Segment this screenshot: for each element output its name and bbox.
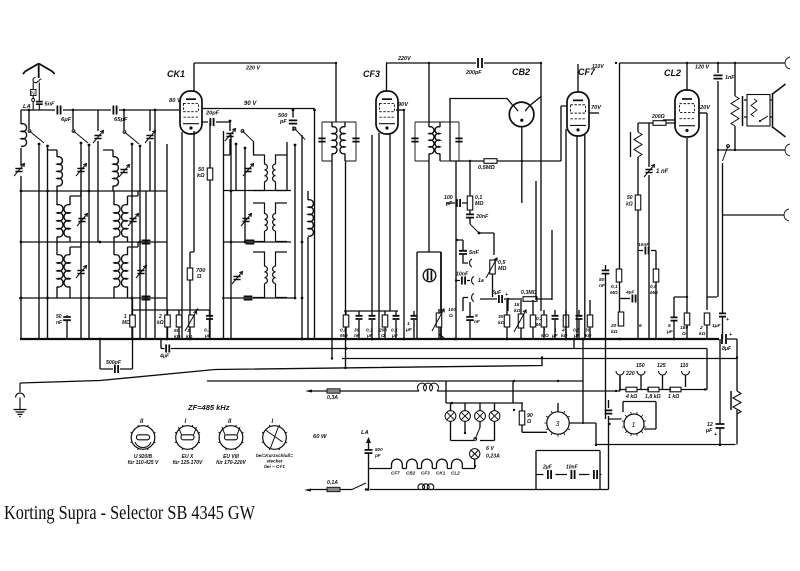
resistor 700 Ohm — [187, 268, 193, 280]
wire speaker return rail — [718, 149, 785, 151]
trimmer bus b — [146, 136, 153, 139]
svg-text:10nF: 10nF — [638, 242, 650, 248]
svg-text:4: 4 — [561, 328, 565, 334]
junction mid 20 — [331, 357, 333, 359]
inductor osc choke — [308, 200, 313, 237]
wire LA drop — [368, 443, 370, 490]
capacitor trans1 left — [605, 410, 613, 413]
svg-text:0,3MΩ: 0,3MΩ — [521, 290, 537, 296]
dot 3k arrow end — [196, 308, 198, 310]
wire 90ohm top stub — [521, 403, 523, 411]
svg-text:MΩ: MΩ — [650, 290, 658, 296]
svg-text:kΩ: kΩ — [514, 308, 521, 314]
svg-text:4μF: 4μF — [159, 354, 170, 360]
capacitor 20nF — [466, 214, 474, 217]
speaker switch blade — [760, 116, 768, 121]
junction bus 0 — [99, 338, 102, 341]
capacitor 10nF AF — [462, 277, 465, 285]
resistor 15 kOhm var — [518, 314, 524, 328]
resistor 30 kOhm — [504, 315, 510, 327]
wire 50nF stub — [66, 315, 68, 339]
wire tuner vertical x81 — [80, 143, 82, 339]
resistor 0.1 MOhm r — [616, 269, 622, 282]
svg-text:CF3: CF3 — [421, 471, 430, 476]
svg-text:ZF=485 kHz: ZF=485 kHz — [187, 403, 230, 412]
svg-text:kΩ: kΩ — [197, 173, 205, 179]
svg-text:220: 220 — [625, 371, 635, 377]
wire tuner vertical x155 — [154, 110, 156, 339]
dot throw s3b — [139, 145, 142, 148]
wire transformer bottom — [734, 126, 736, 150]
svg-text:II: II — [228, 419, 232, 425]
wire A1 stems — [48, 150, 58, 191]
wire fuse line — [311, 390, 419, 392]
wire switch2 stem — [72, 110, 74, 129]
wire tuner vertical x146 — [145, 191, 147, 339]
wire tuner vertical x318 — [314, 109, 316, 340]
trimmer r2a — [78, 219, 85, 222]
junction tuner 24 — [313, 109, 316, 112]
junction mid 17 — [469, 160, 471, 162]
svg-text:200: 200 — [378, 328, 387, 334]
trimmer CK1 grid arrow — [225, 129, 236, 142]
speaker voice coil zigzag — [751, 99, 757, 117]
junction tuner 2 — [123, 109, 126, 112]
resistor 0.5 MOhm g1 — [343, 315, 349, 327]
lamp dial 2 — [460, 411, 471, 422]
svg-text:120 V: 120 V — [695, 65, 709, 71]
selector tap 110 — [682, 371, 690, 375]
capacitor 65pF bus series — [113, 106, 116, 115]
selector tap 125 — [659, 371, 667, 375]
wire CB2 top right — [531, 97, 542, 106]
wire contact c — [463, 298, 468, 312]
svg-text:pF: pF — [445, 201, 453, 207]
wire output drop 2 — [734, 63, 736, 96]
svg-text:CF7: CF7 — [391, 471, 400, 476]
wire tuner tie row3 left — [19, 297, 167, 299]
wire CK1 pin to 700 — [190, 252, 194, 339]
junction bus 1 — [166, 338, 169, 341]
capacitor 5nF bus — [466, 317, 474, 320]
resistor 2 kOhm det — [165, 315, 171, 327]
junction bus 3 — [301, 338, 304, 341]
wire CF3 anode right — [396, 109, 404, 111]
svg-text:6: 6 — [639, 323, 642, 329]
junction mid 19 — [686, 296, 688, 298]
capacitor 500pF agc — [115, 365, 118, 373]
svg-text:pF: pF — [374, 453, 381, 458]
junction tuner 22 — [229, 120, 232, 123]
wire 200 to x638 — [638, 123, 676, 132]
svg-text:60 W: 60 W — [313, 434, 327, 440]
wire fuse line b — [437, 376, 620, 391]
junction power 1 — [474, 465, 476, 467]
resistor 30 kOhm b — [587, 315, 593, 327]
dot throw s4b — [244, 147, 247, 150]
heater chain windings — [369, 459, 463, 468]
inductor A2a — [57, 205, 63, 237]
IF transformer 1 frame — [322, 122, 356, 161]
junction mid 12 — [734, 149, 736, 151]
transformer 3 (autotransformer) — [544, 409, 572, 437]
wire lamp bottoms — [451, 421, 495, 440]
wire bus B2 — [172, 348, 707, 350]
junction tuner 18 — [244, 241, 247, 244]
junction mid 7 — [540, 62, 542, 64]
wire main ground bus — [20, 338, 719, 340]
svg-text:30: 30 — [498, 314, 504, 320]
svg-text:2μF: 2μF — [542, 465, 553, 471]
inductor B1 — [113, 157, 118, 186]
resistor 200 Ohm g1 — [382, 315, 388, 327]
resistor 0.5 MOhm r — [653, 269, 659, 282]
wire 4uF bracket — [161, 339, 172, 349]
junction bus 6 — [403, 338, 406, 341]
capacitor pad left r3 — [142, 296, 151, 299]
capacitor 0.1uF det — [206, 316, 213, 319]
svg-text:kΩ: kΩ — [498, 320, 505, 326]
wire 2k stub — [707, 297, 717, 339]
wire group1 stubs — [346, 320, 396, 339]
svg-text:8μF: 8μF — [722, 346, 732, 352]
wire x574 link — [573, 339, 575, 349]
wire tuner vertical x132 — [131, 144, 133, 339]
indicator lamp frame bar — [440, 252, 442, 339]
inductor A3a — [57, 255, 63, 287]
svg-text:0,1: 0,1 — [611, 284, 618, 290]
capacitor 5uF — [671, 317, 678, 320]
wire tuner vertical x89 — [88, 145, 90, 339]
dot lamp2 stub — [464, 432, 466, 434]
junction tuner 3 — [154, 109, 157, 112]
wire 50k stem — [209, 121, 211, 339]
indicator eye — [423, 269, 436, 282]
svg-text:1: 1 — [407, 321, 410, 327]
junction bus 9 — [565, 338, 568, 341]
svg-text:0,5: 0,5 — [650, 284, 657, 290]
svg-text:20nF: 20nF — [475, 214, 489, 220]
dot throw s4a — [235, 143, 238, 146]
svg-text:μF: μF — [405, 327, 413, 333]
wire tuner tie row2 left — [21, 241, 167, 243]
wire 1M det stubs — [132, 298, 134, 339]
wire 10nF line — [456, 280, 470, 282]
svg-text:6μF: 6μF — [61, 117, 72, 123]
switch band 1 — [28, 130, 44, 143]
lightning arrester gap — [33, 78, 42, 83]
svg-text:0,5MΩ: 0,5MΩ — [478, 165, 495, 171]
svg-text:125: 125 — [657, 363, 666, 369]
svg-text:II: II — [140, 419, 144, 425]
trimmer antenna arrow — [14, 164, 25, 177]
resistor 0.3 MOhm — [523, 297, 537, 302]
fuse 0.1A body — [327, 487, 340, 491]
junction power 13 — [451, 402, 453, 404]
junction bus 5 — [371, 338, 374, 341]
wire bus B3 — [342, 358, 737, 360]
svg-text:200pF: 200pF — [465, 70, 482, 76]
junction mid 11 — [717, 149, 719, 151]
wire B1 stems — [103, 150, 113, 191]
wire trimmer down — [224, 139, 230, 155]
capacitor 0.1uF g1b — [393, 316, 400, 319]
trimmer r1a arrow — [76, 164, 87, 177]
contact arc a — [470, 259, 472, 267]
wire rail drop to CK1 anode — [193, 63, 195, 91]
contact arc b — [472, 277, 474, 285]
svg-text:nF: nF — [56, 320, 63, 326]
junction mid 16 — [521, 160, 523, 162]
wire antenna right branch — [38, 83, 40, 111]
capacitor IFT1 right — [352, 138, 359, 141]
svg-text:65pF: 65pF — [114, 117, 128, 123]
svg-text:1a: 1a — [478, 278, 484, 284]
wire pot frame — [417, 252, 441, 339]
dot throw s3a — [131, 143, 134, 146]
capacitor 500pF osc — [289, 120, 297, 123]
resistor 100 Ohm var — [436, 313, 442, 327]
svg-text:3: 3 — [556, 421, 560, 428]
svg-text:pF: pF — [279, 119, 287, 125]
junction mid 0 — [455, 279, 457, 281]
switch band 4 — [241, 130, 254, 142]
junction bus 11 — [673, 338, 676, 341]
trimmer r3a — [77, 271, 84, 274]
svg-text:110: 110 — [680, 363, 688, 369]
svg-text:kΩ: kΩ — [611, 329, 618, 335]
resistor 0.1 MOhm grid — [467, 196, 473, 210]
antenna — [23, 64, 55, 79]
connector hook right top — [785, 57, 790, 69]
svg-text:4μF: 4μF — [625, 290, 636, 296]
wire trans3 top — [557, 403, 559, 412]
svg-text:50: 50 — [627, 195, 633, 201]
wire tuner vertical x47 — [47, 146, 49, 339]
inductor IFT1 secondary — [340, 127, 345, 154]
tube socket 2 — [175, 425, 200, 450]
inductor B3b — [122, 255, 128, 287]
tube CF3 — [376, 91, 398, 134]
arrow 15k — [514, 310, 526, 332]
wire tuner vertical x140 — [139, 146, 141, 339]
wire x456 dot branch — [456, 240, 463, 250]
capacitor 30nF g1 — [356, 316, 363, 319]
trimmer 1nF arrow — [644, 165, 655, 178]
resistor 4 kOhm sel — [626, 387, 637, 392]
wire heater feed x583 — [582, 339, 584, 424]
connector hook right lower — [784, 209, 789, 221]
trimmer bus b arrow — [145, 131, 156, 144]
svg-text:0,1A: 0,1A — [327, 480, 338, 486]
svg-text:CB2: CB2 — [512, 67, 530, 77]
tube socket 3 — [218, 425, 243, 450]
junction power 0 — [365, 488, 367, 490]
trimmer r1c arrow — [243, 164, 254, 177]
svg-text:kΩ: kΩ — [626, 202, 633, 208]
resistor 1.8 kOhm sel — [648, 387, 659, 392]
svg-text:500: 500 — [375, 447, 383, 452]
svg-text:für 125-170V: für 125-170V — [173, 460, 203, 466]
svg-text:3: 3 — [187, 328, 190, 334]
dot throw s1a — [38, 143, 41, 146]
wire B2 stems — [114, 191, 138, 242]
trimmer r3c — [233, 277, 240, 280]
junction mid 1 — [456, 239, 458, 241]
svg-text:1nF: 1nF — [725, 75, 735, 81]
trimmer r2a arrow — [77, 214, 88, 227]
arrow tip fuse line — [305, 390, 312, 393]
wire selector chain — [620, 349, 707, 390]
svg-text:70V: 70V — [591, 105, 602, 111]
junction mid 3 — [507, 298, 509, 300]
svg-text:CL2: CL2 — [451, 471, 460, 476]
IF transformer 2 frame — [415, 122, 459, 161]
svg-text:50: 50 — [599, 277, 605, 283]
wire heater start — [365, 489, 367, 491]
connector hook right bottom — [785, 144, 790, 156]
wire 50k det stubs — [178, 310, 180, 339]
core bar CL2 — [630, 132, 632, 157]
junction mid 21 — [344, 367, 346, 369]
selector tap 150 — [637, 371, 645, 375]
junction bus 7 — [455, 338, 458, 341]
junction power 2 — [557, 380, 559, 382]
junction mid 18 — [313, 338, 315, 340]
svg-text:1,8 kΩ: 1,8 kΩ — [645, 394, 661, 400]
junction mid 15 — [454, 338, 456, 340]
capacitor 500pF LA — [365, 450, 373, 453]
junction tuner 8 — [99, 241, 102, 244]
svg-text:μF: μF — [666, 329, 674, 335]
wire tuner vertical x39 — [38, 144, 40, 339]
capacitor 20pF — [210, 118, 213, 126]
ground symbol — [14, 383, 27, 417]
tube socket 1 — [130, 425, 155, 450]
wire caps block rails — [536, 451, 602, 490]
svg-text:bei=Kurzschluß=: bei=Kurzschluß= — [256, 453, 293, 458]
resistor 0.2 MOhm — [530, 315, 536, 327]
junction power 14 — [513, 409, 515, 411]
svg-text:6μF: 6μF — [492, 290, 502, 296]
capacitor 2uF — [548, 470, 551, 479]
junction bus 12 — [582, 338, 585, 341]
resistor 1 kOhm sel — [670, 387, 681, 392]
dot throw s1b — [46, 145, 49, 148]
wire CF3 pins — [379, 63, 390, 339]
lamp dial 1 — [445, 411, 456, 422]
resistor 50 kOhm det — [176, 315, 182, 327]
inductor antenna coil — [21, 124, 27, 147]
svg-text:0,1: 0,1 — [391, 328, 398, 334]
inductor IFT2 secondary — [435, 127, 440, 154]
wire B3 stems — [114, 242, 138, 298]
junction power 10 — [719, 444, 721, 446]
resistor 20 kOhm — [618, 312, 624, 326]
junction tuner 11 — [20, 297, 23, 300]
wire 1uFp stub — [723, 163, 785, 339]
wire AF switch out — [479, 233, 494, 255]
wire 500pF branch — [100, 327, 133, 369]
wire IFT1 coil stems — [332, 122, 345, 161]
svg-text:15: 15 — [514, 302, 520, 308]
svg-text:5: 5 — [475, 313, 478, 319]
wire A3 stems — [57, 242, 81, 298]
trimmer r1b arrow — [119, 165, 130, 178]
wire 4uF line — [620, 298, 639, 300]
trimmer r1b — [120, 170, 127, 173]
switch lamps — [474, 428, 480, 441]
wire 10nF jog — [638, 251, 656, 340]
wire AVC line x404 — [403, 110, 405, 339]
wire trim bus a stem — [97, 110, 99, 242]
svg-text:Ω: Ω — [196, 274, 202, 280]
dot mains switch — [367, 488, 370, 491]
contact arc c — [472, 294, 474, 302]
junction power 9 — [736, 356, 738, 358]
transformer 1 (motor?) — [622, 412, 646, 436]
output transformer core — [742, 96, 744, 126]
wire trans1 left — [609, 416, 622, 419]
wire trim bus b stem — [149, 110, 151, 191]
wire tuner vertical x302 — [301, 135, 303, 339]
wire arrester left join — [32, 102, 34, 111]
capacitor 6uF bus series — [57, 106, 60, 115]
resistor 4 kOhm — [563, 315, 569, 327]
wire 5nF to contact — [463, 255, 468, 263]
resistor 1 MOhm af — [541, 315, 547, 327]
speaker cone — [773, 84, 786, 137]
svg-text:LA: LA — [361, 430, 369, 436]
trimmer antenna — [15, 169, 22, 172]
junction mid 23 — [615, 62, 617, 64]
capacitor 10nF r — [645, 247, 648, 255]
capacitor pad right r2 — [246, 240, 255, 243]
resistor 3 kOhm var — [189, 315, 195, 327]
lamp 6V scale — [470, 449, 480, 459]
wire trans3 right — [569, 423, 735, 445]
junction power 3 — [513, 380, 515, 382]
wire group1 tie — [344, 311, 398, 315]
capacitor 0.1uF g1 — [369, 316, 376, 319]
inductor B3a — [114, 255, 120, 287]
junction power 11 — [608, 423, 610, 425]
capacitor 50nF — [602, 270, 610, 273]
wire 150 stub — [686, 325, 688, 339]
wire tuner vertical x236 — [235, 144, 237, 191]
svg-text:kΩ: kΩ — [157, 320, 164, 326]
trimmer r2b arrow — [128, 214, 139, 227]
svg-text:90V: 90V — [398, 102, 409, 108]
junction power 12 — [595, 444, 597, 446]
svg-text:0,3A: 0,3A — [327, 395, 338, 401]
wire IFT2 bottoms — [429, 161, 456, 339]
wire output drop 1 — [717, 63, 719, 297]
resistor 50 kOhm CL2 — [635, 195, 641, 210]
arrow 3k — [185, 311, 197, 331]
trimmer r3b arrow — [136, 266, 147, 279]
capacitor IFT1 left — [318, 138, 325, 141]
wire x638 down — [637, 157, 639, 339]
svg-text:bei ~ CY1: bei ~ CY1 — [264, 464, 285, 469]
resistor 90 Ohm — [519, 411, 525, 425]
capacitor 200pF coupling — [478, 58, 482, 68]
wire tuner vertical x245 — [244, 148, 246, 242]
capacitor 1uF — [411, 316, 418, 319]
svg-text:4 kΩ: 4 kΩ — [625, 394, 637, 400]
inductor A2b — [64, 205, 70, 237]
svg-text:+: + — [505, 292, 508, 298]
